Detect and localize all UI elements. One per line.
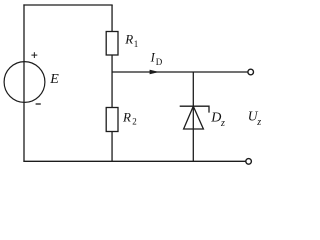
zener diode Dz [180, 106, 209, 129]
output terminal bottom [246, 159, 252, 165]
wire: R2 lower segment to bottom rail [111, 132, 113, 162]
current arrow ID [150, 70, 158, 74]
svg-text:E: E [49, 72, 59, 87]
svg-text:D: D [210, 111, 221, 126]
minus polarity mark [36, 103, 41, 105]
svg-text:I: I [150, 51, 156, 65]
voltage source E [4, 62, 45, 103]
wire: bottom horizontal [23, 160, 246, 162]
wire: segment between R1 and junction node A [111, 55, 113, 72]
wire: R1 branch upper segment [111, 5, 113, 32]
svg-text:D: D [156, 57, 163, 67]
wire: zener branch lower segment [192, 129, 194, 161]
wire: output horizontal with current ID [112, 71, 248, 73]
plus polarity mark [31, 52, 37, 58]
wire: zener branch upper segment [192, 72, 194, 129]
resistor R1 [106, 32, 118, 56]
svg-text:R: R [124, 32, 133, 47]
svg-text:z: z [220, 118, 225, 129]
wire: left vertical through source [23, 4, 25, 162]
output terminal top [248, 69, 254, 75]
svg-text:2: 2 [132, 116, 137, 126]
svg-text:R: R [122, 110, 131, 125]
svg-text:1: 1 [134, 39, 139, 49]
resistor R2 [106, 108, 118, 132]
svg-text:z: z [256, 117, 261, 128]
node A junction to output wire [111, 72, 113, 108]
wire: top horizontal (node from source + to R1) [23, 4, 112, 6]
